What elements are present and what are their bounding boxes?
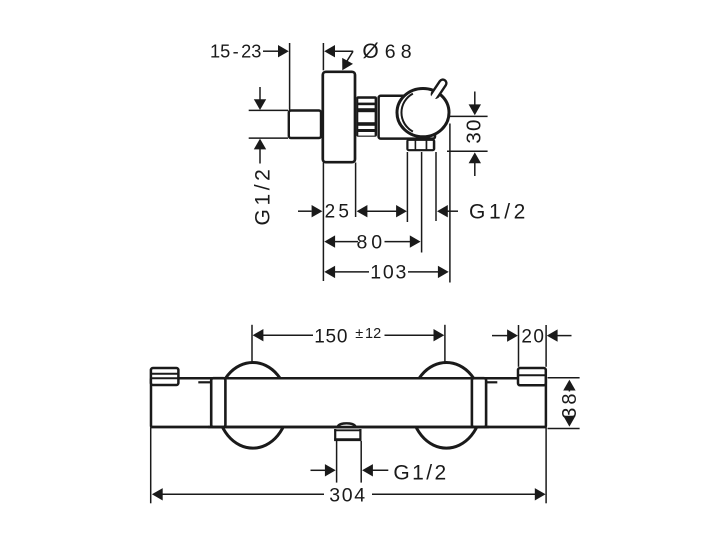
- svg-text:12: 12: [365, 326, 381, 342]
- svg-text:38: 38: [559, 390, 581, 418]
- svg-text:G1/2: G1/2: [469, 201, 529, 224]
- svg-text:G1/2: G1/2: [252, 166, 275, 226]
- svg-text:15 - 23: 15 - 23: [210, 41, 261, 61]
- svg-text:304: 304: [329, 485, 367, 507]
- svg-text:20: 20: [521, 326, 545, 347]
- svg-text:25: 25: [325, 202, 353, 223]
- svg-text:G1/2: G1/2: [393, 462, 448, 485]
- svg-text:±: ±: [355, 326, 363, 342]
- svg-text:80: 80: [357, 231, 386, 253]
- svg-text:Ø: Ø: [362, 40, 378, 63]
- svg-text:150: 150: [314, 327, 348, 348]
- svg-text:68: 68: [385, 41, 417, 63]
- svg-text:30: 30: [463, 118, 486, 143]
- svg-text:103: 103: [370, 262, 408, 284]
